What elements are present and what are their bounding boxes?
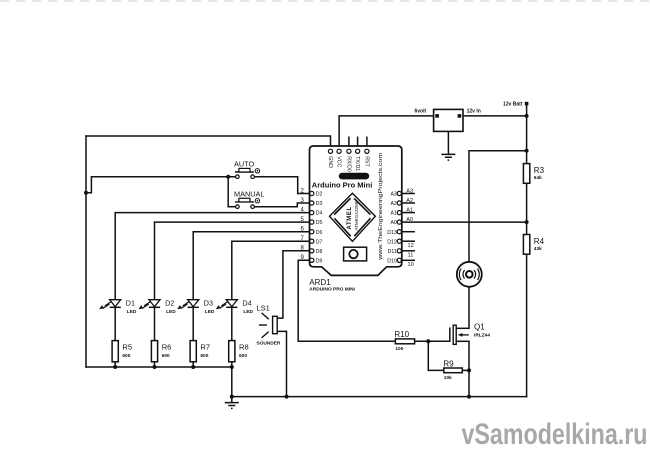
- svg-text:A3: A3: [406, 188, 413, 194]
- svg-text:D1: D1: [126, 299, 135, 308]
- node sounder ground junction: [285, 395, 289, 399]
- pin D2 circle: [310, 191, 314, 195]
- wire motor to Q1 drain: [468, 287, 470, 329]
- wire LED2 cathode to resistor: [154, 307, 156, 340]
- svg-text:www.TheEngineeringProjects.com: www.TheEngineeringProjects.com: [378, 153, 384, 261]
- svg-text:A2: A2: [390, 201, 396, 207]
- svg-text:12v Batt: 12v Batt: [503, 102, 523, 108]
- node motor feed junction: [525, 149, 529, 153]
- svg-text:D13: D13: [387, 230, 397, 236]
- wire resistor R5 to rail: [114, 362, 116, 367]
- resistor R3: [523, 164, 529, 184]
- svg-text:LED: LED: [243, 309, 253, 315]
- resistor R5: [112, 341, 118, 362]
- resistor R7: [190, 341, 196, 362]
- svg-text:D8: D8: [316, 249, 323, 255]
- svg-text:R6: R6: [162, 343, 172, 352]
- svg-text:A2: A2: [406, 198, 413, 204]
- wire LED bottom rail: [86, 366, 232, 368]
- pin D6 circle: [310, 230, 314, 234]
- wire bottom ground rail: [232, 396, 527, 398]
- svg-text:D4: D4: [316, 211, 323, 217]
- svg-text:AUTO: AUTO: [234, 160, 254, 169]
- resistor R8: [229, 341, 235, 362]
- wire D5 to LED D2 column: [155, 222, 310, 300]
- pin D13 circle: [397, 230, 401, 234]
- wire LED1 cathode to resistor: [114, 307, 116, 340]
- svg-text:D9: D9: [316, 258, 323, 264]
- svg-text:12v In: 12v In: [467, 109, 481, 115]
- svg-text:A1: A1: [406, 207, 413, 213]
- pin TX/D1 circle: [356, 149, 360, 153]
- regulator/connector box: [434, 109, 463, 131]
- node divider mid junction: [525, 220, 529, 224]
- svg-text:6volt: 6volt: [415, 109, 427, 115]
- wire resistor R7 to rail: [192, 362, 194, 367]
- wire resistor R6 to rail: [154, 362, 156, 367]
- node 12v Batt terminal: [525, 102, 529, 106]
- pin D11 circle: [397, 249, 401, 253]
- svg-text:100: 100: [395, 346, 403, 352]
- pin RST circle: [365, 149, 369, 153]
- wire resistor R8 to rail: [231, 362, 233, 367]
- svg-text:12: 12: [408, 243, 414, 249]
- svg-text:600: 600: [200, 353, 208, 359]
- svg-text:VCC: VCC: [336, 156, 342, 167]
- wire faint top edge remnant: [0, 0, 650, 2]
- wire R10 to Q1 gate: [415, 328, 450, 341]
- svg-text:R10: R10: [394, 330, 409, 339]
- wire motor feed from divider top: [469, 151, 527, 262]
- node battery line junction: [525, 114, 529, 118]
- svg-text:D4: D4: [242, 299, 251, 308]
- svg-text:64k: 64k: [534, 175, 542, 181]
- svg-text:A3: A3: [390, 192, 396, 198]
- LED D4: [216, 300, 238, 310]
- transistor Q1 IRLZ44 MOSFET: [453, 325, 469, 344]
- svg-text:LED: LED: [166, 309, 176, 315]
- wire regulator ground lead: [447, 131, 449, 153]
- wire button common vertical: [227, 177, 229, 207]
- LED D3: [177, 300, 199, 310]
- resistor R10: [395, 339, 414, 344]
- wire AUTO to pin D2: [255, 177, 310, 194]
- svg-text:vSamodelkina.ru: vSamodelkina.ru: [462, 418, 648, 451]
- svg-text:ATMEGA328P: ATMEGA328P: [354, 201, 359, 230]
- op-amp ARD1 Arduino Pro Mini body: [310, 146, 402, 275]
- node gate/R9 junction: [426, 339, 430, 343]
- svg-text:Q1: Q1: [474, 322, 485, 331]
- speaker LS1 sounder: [259, 313, 277, 338]
- svg-text:R7: R7: [200, 343, 210, 352]
- pin A2 circle: [397, 201, 401, 205]
- pin VCC circle: [337, 149, 341, 153]
- pin A1 circle: [397, 211, 401, 215]
- resistor R4: [523, 235, 529, 255]
- wire to MANUAL left terminal: [228, 206, 235, 208]
- wire GND-pin to top-left rail: [86, 136, 331, 149]
- svg-text:LED: LED: [205, 309, 215, 315]
- wire D6 to LED D3 column: [193, 232, 309, 300]
- wire RST stub: [366, 137, 368, 149]
- node Q1 source ground junction: [467, 395, 471, 399]
- svg-text:11: 11: [408, 253, 414, 259]
- svg-text:D7: D7: [316, 239, 323, 245]
- LED D2: [139, 300, 161, 310]
- svg-text:D3: D3: [316, 201, 323, 207]
- wire pin A2 stub: [402, 202, 414, 204]
- svg-text:R4: R4: [534, 237, 545, 246]
- node R8 bottom junction: [230, 365, 234, 369]
- svg-text:LED: LED: [127, 309, 137, 315]
- svg-text:R8: R8: [239, 343, 249, 352]
- svg-text:ARDUINO PRO MINI: ARDUINO PRO MINI: [309, 287, 355, 293]
- wire pin D10 stub: [402, 259, 414, 261]
- programming header (black pill): [339, 173, 369, 180]
- svg-text:43k: 43k: [534, 246, 542, 252]
- wire gate junction down to R9: [428, 341, 444, 370]
- wire ground frame to button commons: [86, 177, 235, 193]
- svg-text:D6: D6: [316, 230, 323, 236]
- svg-text:IRLZ44: IRLZ44: [474, 332, 490, 338]
- svg-text:GND: GND: [327, 156, 333, 168]
- pin GND circle: [328, 149, 332, 153]
- svg-text:600: 600: [162, 353, 170, 359]
- wire pin D11 stub: [402, 250, 414, 252]
- pin D9 circle: [310, 258, 314, 262]
- switch MANUAL button: [235, 198, 260, 208]
- LED D1: [99, 300, 121, 310]
- wire VCC-pin to regulator input: [339, 116, 434, 149]
- svg-text:A0: A0: [406, 217, 413, 223]
- node R7 bottom junction: [191, 365, 195, 369]
- svg-text:R3: R3: [534, 166, 545, 175]
- ground below regulator: [441, 154, 455, 160]
- svg-text:600: 600: [239, 353, 247, 359]
- resistor R9: [444, 368, 463, 373]
- pin A3 circle: [397, 191, 401, 195]
- wire pin A1 stub: [402, 212, 414, 214]
- svg-text:R9: R9: [443, 359, 454, 368]
- pin A0 circle: [397, 220, 401, 224]
- node R9/source junction: [467, 368, 471, 372]
- svg-text:D5: D5: [316, 220, 323, 226]
- node R5 bottom junction: [113, 365, 117, 369]
- wire right frame vertical lower: [526, 254, 528, 396]
- svg-text:ARD1: ARD1: [309, 278, 331, 287]
- svg-text:10k: 10k: [444, 375, 452, 381]
- node R6 bottom junction: [153, 365, 157, 369]
- svg-text:D2: D2: [165, 299, 174, 308]
- svg-text:TX/D1: TX/D1: [354, 156, 360, 171]
- wire LED4 cathode to resistor: [231, 307, 233, 340]
- resistor R6: [151, 341, 157, 362]
- pin D8 circle: [310, 249, 314, 253]
- svg-text:Arduino Pro Mini: Arduino Pro Mini: [312, 180, 373, 189]
- pin D5 circle: [310, 220, 314, 224]
- svg-text:R5: R5: [122, 343, 132, 352]
- pin D3 circle: [310, 201, 314, 205]
- wire sounder bottom to ground rail: [277, 331, 286, 396]
- wire R9 to source junction: [462, 369, 469, 371]
- svg-text:D2: D2: [316, 192, 323, 198]
- svg-text:A0: A0: [390, 220, 396, 226]
- svg-text:RST: RST: [363, 156, 369, 167]
- wire pin D12 stub: [402, 240, 414, 242]
- pin D4 circle: [310, 211, 314, 215]
- wire RX/D0 stub: [348, 137, 350, 149]
- node ground symbol junction: [230, 395, 234, 399]
- svg-text:600: 600: [122, 353, 130, 359]
- wire pin D13 stub: [402, 231, 414, 233]
- pin D12 circle: [397, 239, 401, 243]
- svg-text:SOUNDER: SOUNDER: [256, 341, 281, 347]
- wire pin A3 stub: [402, 193, 414, 195]
- svg-text:A1: A1: [390, 211, 396, 217]
- wire D8 to sounder top: [277, 251, 309, 318]
- wire between R4 and R3: [526, 183, 528, 234]
- wire D7 to LED D4 column: [232, 241, 310, 300]
- wire D4 to LED D1 column: [115, 213, 309, 300]
- pin RX/D0 circle: [347, 149, 351, 153]
- wire above R3 to 12v Batt terminal: [526, 104, 528, 164]
- wire A0 to divider junction: [402, 221, 527, 223]
- svg-text:RX/D0: RX/D0: [345, 156, 351, 172]
- pin D10 circle: [397, 258, 401, 262]
- ground bottom center: [225, 397, 239, 409]
- node button common junction: [226, 175, 230, 179]
- node ground-frame / button junction: [84, 191, 88, 195]
- svg-text:10: 10: [408, 262, 414, 268]
- IC ATMEGA328P diamond: [330, 193, 376, 241]
- wire MANUAL to pin D3: [255, 203, 310, 207]
- svg-text:D10: D10: [387, 258, 397, 264]
- wire drop to ground rail: [231, 367, 233, 397]
- wire LED3 cathode to resistor: [192, 307, 194, 340]
- wire regulator output to battery line: [463, 115, 527, 117]
- svg-text:D3: D3: [204, 299, 213, 308]
- svg-text:MANUAL: MANUAL: [234, 189, 264, 198]
- svg-text:D12: D12: [387, 239, 397, 245]
- wire TX/D1 stub: [357, 137, 359, 149]
- svg-text:ATMEL: ATMEL: [347, 206, 353, 229]
- wire left frame vertical: [85, 136, 87, 367]
- wire D9 to R10: [298, 260, 395, 341]
- svg-text:D11: D11: [388, 249, 397, 255]
- pin D7 circle: [310, 239, 314, 243]
- wire Q1 source down to ground rail: [468, 341, 470, 396]
- crystal box: [344, 247, 367, 261]
- svg-text:LS1: LS1: [256, 303, 270, 312]
- motor M1: [457, 262, 482, 287]
- switch AUTO button: [235, 168, 260, 178]
